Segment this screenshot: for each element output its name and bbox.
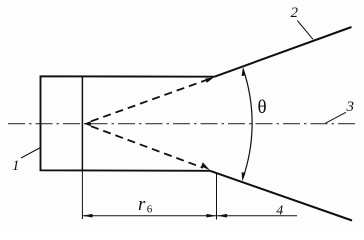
arrowhead r6 left — [82, 214, 92, 218]
dashed ray top — [91, 80, 207, 122]
inner face line — [81, 76, 83, 171]
dimension line 4 — [217, 215, 297, 217]
leader line label 2 — [297, 21, 313, 40]
svg-text:2: 2 — [291, 5, 299, 21]
svg-text:1: 1 — [12, 158, 20, 174]
arrowhead dim 4 — [217, 214, 227, 218]
beam line lower — [210, 171, 352, 221]
apex arrow — [84, 121, 91, 126]
extension line right — [216, 173, 218, 220]
svg-text:3: 3 — [346, 99, 355, 115]
beam line 2 (upper) — [215, 27, 352, 77]
extension line left — [81, 171, 83, 219]
dimension line r6 — [83, 215, 216, 217]
body outline 1 (open right side) — [41, 76, 215, 171]
arrowhead arc top — [242, 67, 246, 76]
arrowhead dashed ray bottom — [201, 162, 210, 170]
arrowhead dashed ray top — [205, 77, 214, 83]
svg-text:6: 6 — [147, 204, 153, 216]
svg-text:4: 4 — [276, 204, 283, 219]
leader line label 1 — [21, 148, 41, 159]
arrowhead r6 right — [206, 214, 216, 218]
angle arc theta — [243, 70, 253, 180]
dashed ray bottom — [91, 126, 203, 168]
leader line label 3 — [326, 112, 347, 123]
svg-text:θ: θ — [258, 97, 267, 118]
svg-text:r: r — [138, 194, 146, 215]
arrowhead arc bottom — [242, 172, 246, 181]
node axis centerline (optical axis) — [8, 123, 356, 125]
